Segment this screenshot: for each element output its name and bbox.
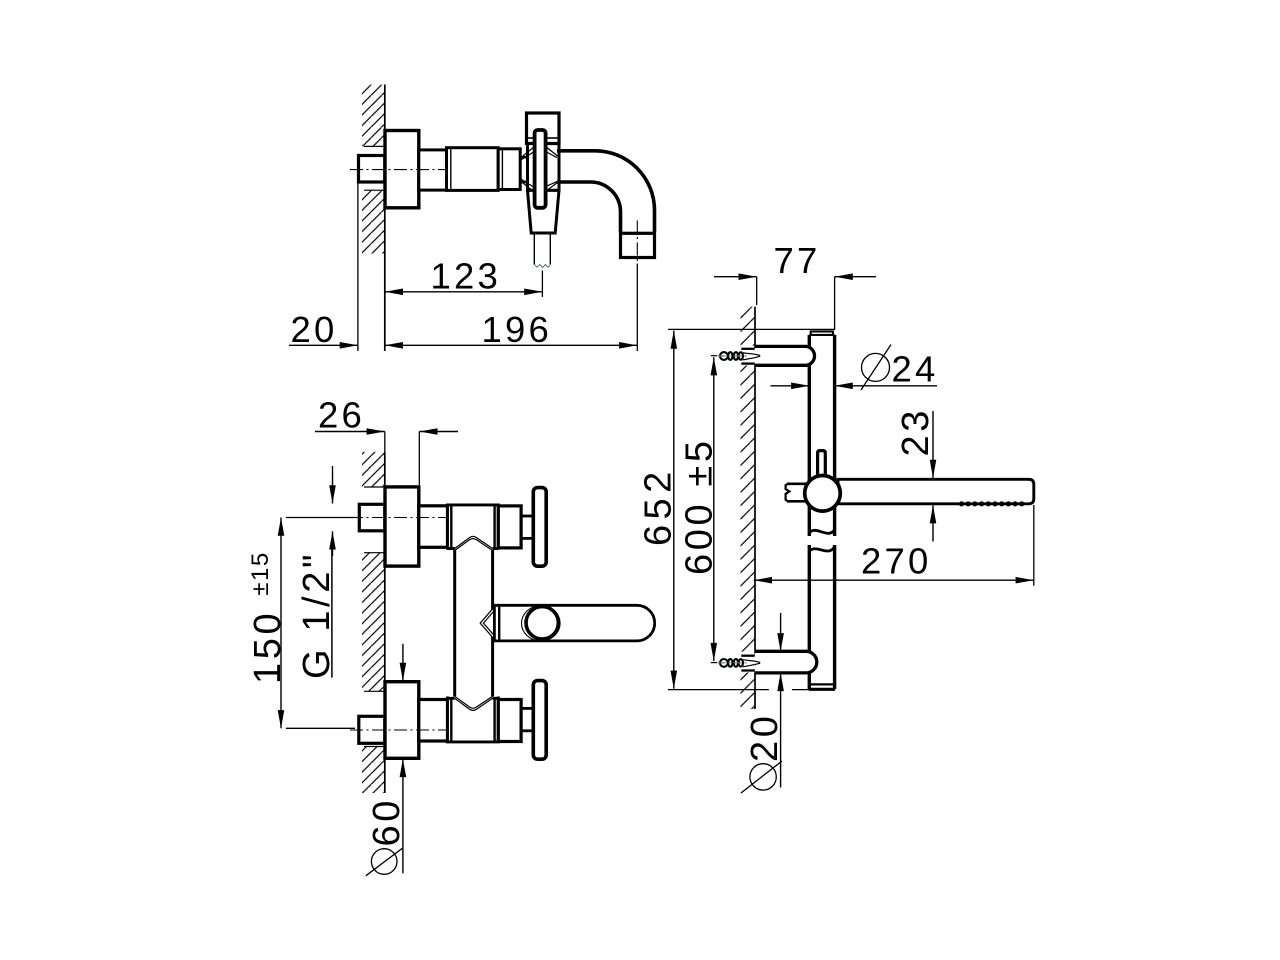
svg-text:123: 123 [431, 255, 502, 296]
svg-text:G 1/2": G 1/2" [296, 551, 338, 679]
lower inlet centerline [350, 729, 448, 731]
lever knob ghost circle [522, 606, 561, 641]
lower outlet pipe right [498, 700, 521, 742]
chamfer marks left [521, 147, 534, 192]
svg-text:23: 23 [895, 407, 937, 456]
wall face line [384, 85, 386, 352]
slider lock tab [818, 451, 826, 476]
upper tee intersection tent [455, 536, 493, 550]
svg-text:652: 652 [637, 466, 679, 546]
hand shower hose stub with break [786, 484, 806, 502]
cross handle bar (edge-on) [535, 130, 546, 208]
lower T-body [448, 697, 499, 742]
upper escutcheon [385, 487, 419, 566]
escutcheon flange [385, 131, 419, 208]
wall hatching patch bottom [741, 673, 756, 710]
extension line from spout outlet [636, 264, 638, 352]
dimension 20 [289, 309, 358, 350]
hand shower handle bar [838, 479, 1034, 504]
dimension 150 +-15 [247, 518, 357, 729]
bottom mounting screw [711, 656, 760, 671]
dimension 652 [637, 329, 834, 689]
wall hatch boundary line 3 [364, 746, 385, 748]
vertical column tube [455, 549, 493, 699]
rail break squiggle lower [809, 547, 834, 552]
spout tube inner curve [557, 182, 621, 232]
top screw axis centerline [718, 355, 749, 357]
chamfer marks right [546, 147, 559, 192]
wall hatching patch top [741, 307, 756, 346]
upper neck [521, 515, 533, 518]
bottom wall bracket [755, 651, 817, 673]
dimension 123 [385, 255, 543, 296]
rail top cap [809, 331, 834, 335]
body segment 1 [419, 150, 447, 190]
dimension 77 [714, 240, 876, 330]
upper outlet pipe right [498, 506, 521, 548]
spout tube outer curve [557, 151, 655, 232]
slider body [805, 476, 841, 512]
handle top block [527, 113, 560, 144]
outlet centerline [636, 221, 638, 264]
upper inlet pipe [419, 506, 448, 548]
svg-text:20: 20 [291, 309, 338, 350]
upper wall nut [359, 504, 385, 531]
spray nozzle dots [959, 501, 1025, 506]
bottom screw axis centerline [718, 662, 749, 664]
lower wall nut [359, 716, 385, 743]
wall hatching patch 2 [362, 553, 385, 692]
lower cross handle disc [533, 681, 546, 760]
top wall bracket [755, 346, 815, 365]
extension line from nut left edge (20) [357, 182, 359, 352]
wall hatch boundary lines 2 [364, 552, 385, 554]
dimension 26 [315, 395, 458, 486]
dimension 270 [754, 505, 1034, 586]
lower valve trapezoid body [528, 190, 560, 233]
dimension diameter 20 [741, 613, 786, 793]
thread label G 1/2" [296, 466, 338, 679]
vertical outlet stub with break [534, 233, 550, 265]
wall fitting nut [359, 156, 385, 183]
wall face line [754, 307, 756, 709]
svg-text:24: 24 [892, 348, 939, 389]
spout outlet nozzle [621, 233, 655, 257]
dimension 196 [385, 309, 638, 350]
slide rail tube [809, 335, 834, 689]
rail break white gap [807, 536, 838, 545]
lower tee intersection tent [455, 696, 493, 710]
valve block [528, 144, 560, 191]
svg-text:20: 20 [744, 713, 786, 762]
dimension diameter 60 [366, 644, 408, 876]
lower neck [521, 707, 533, 710]
body segment 2 [447, 148, 499, 191]
svg-text:77: 77 [774, 240, 821, 281]
rail break squiggle upper [809, 530, 834, 534]
svg-text:60: 60 [366, 797, 408, 846]
body segment 3 [498, 149, 520, 190]
wall hatching upper patch [362, 85, 385, 147]
lever base edge [498, 605, 500, 641]
extension line from outlet stub [541, 271, 543, 298]
wall hatch boundary line lower [364, 189, 385, 191]
neck between body and valve [520, 156, 528, 159]
lever wedge collar [480, 607, 494, 640]
dimension 600 +-5 [679, 357, 721, 661]
rail bottom cap [810, 683, 834, 685]
upper T-body [448, 505, 499, 550]
wall hatch boundary line 1 [364, 486, 385, 488]
lever knob [526, 607, 558, 639]
upper cross handle disc [533, 488, 546, 567]
wall hatching patch 3 [362, 747, 385, 794]
lower escutcheon [385, 682, 419, 759]
wall hatching patch middle [741, 366, 756, 652]
centerline of tap axis [350, 169, 448, 171]
lower inlet pipe [419, 700, 448, 742]
dimension diameter 24 [771, 345, 939, 391]
wall face line [384, 452, 386, 793]
single lever handle [494, 605, 654, 641]
dimension 23 [895, 407, 937, 541]
upper inlet centerline [350, 517, 448, 519]
top mounting screw [711, 349, 760, 364]
svg-text:270: 270 [861, 540, 932, 581]
wall hatching lower patch [362, 190, 385, 253]
svg-text:26: 26 [318, 395, 365, 436]
wall hatch boundary line upper [364, 145, 385, 147]
wall hatching patch 1 [362, 452, 385, 487]
svg-text:600 ±5: 600 ±5 [679, 437, 721, 575]
svg-text:196: 196 [482, 309, 553, 350]
